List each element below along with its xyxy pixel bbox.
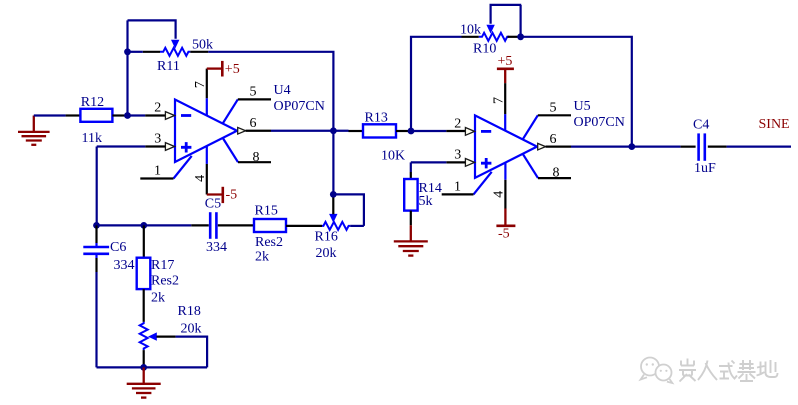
node R10 right junction (517, 33, 524, 40)
node B junction (408, 128, 415, 135)
svg-text:R11: R11 (157, 59, 180, 74)
wire bottom horizontal (97, 366, 208, 368)
U5 pin 2 arrow (465, 127, 474, 135)
svg-text:20k: 20k (181, 321, 202, 336)
ground GND1 left (18, 116, 50, 145)
U5 pin 6 output arrow (538, 143, 546, 150)
U4 pin 4 (206, 146, 208, 164)
wire R10 to U5 output node (521, 37, 632, 147)
wire C6 down to bottom (95, 272, 97, 367)
capacitor C5 (205, 197, 227, 255)
svg-text:2k: 2k (151, 290, 165, 305)
svg-text:11k: 11k (82, 131, 102, 146)
resistor R14 (404, 179, 442, 211)
U4 pin 6 output arrow (238, 127, 246, 134)
power +5 for U4 (207, 61, 240, 77)
svg-text:U5: U5 (574, 99, 591, 114)
wire R17 to R18 (143, 289, 145, 322)
svg-text:3: 3 (154, 132, 161, 147)
svg-text:8: 8 (553, 166, 560, 181)
wire bottom net horizontal (97, 224, 144, 226)
potentiometer R10 10k (460, 22, 521, 56)
svg-text:C6: C6 (110, 240, 126, 255)
svg-text:R16: R16 (315, 229, 338, 244)
U5 pin 1 (474, 172, 492, 195)
svg-text:1: 1 (154, 164, 161, 179)
svg-text:2: 2 (154, 101, 161, 116)
svg-text:R13: R13 (365, 111, 388, 126)
op-amp U5 (442, 83, 625, 208)
wire R15 to R16 (286, 225, 322, 227)
svg-text:6: 6 (250, 116, 257, 131)
minus mark U5 (481, 130, 491, 133)
svg-text:7: 7 (193, 81, 208, 88)
svg-text:Res2: Res2 (255, 235, 283, 250)
capacitor C6 (83, 225, 134, 272)
ground GND3 bottom (127, 367, 161, 397)
svg-text:20k: 20k (316, 246, 337, 261)
svg-text:7: 7 (491, 97, 506, 104)
U5 pin 3 arrow (465, 159, 474, 167)
plus mark U5 (481, 158, 491, 168)
wire R18 wiper loop (176, 337, 208, 368)
node R11 left junction (124, 48, 131, 55)
U5 pin 4 (504, 162, 506, 180)
svg-text:5: 5 (550, 100, 557, 115)
U4 pin 2 arrow (165, 112, 174, 120)
wire R17 top pin (143, 225, 145, 257)
U5 pin 8 (523, 154, 538, 178)
wire R11 wiper loop (128, 20, 176, 38)
wire U5 output to C4 (546, 146, 571, 148)
node U5 out junction (628, 143, 635, 150)
watermark logo (641, 358, 673, 384)
wire U4 pin3 to bottom net (145, 145, 165, 147)
op-amp U4 (140, 69, 325, 195)
svg-text:R15: R15 (255, 204, 278, 219)
svg-text:+5: +5 (225, 62, 240, 77)
svg-text:Res2: Res2 (151, 274, 179, 289)
resistor R12 (80, 95, 112, 146)
svg-text:C4: C4 (693, 117, 709, 132)
svg-text:U4: U4 (274, 83, 291, 98)
U5 pin 7 (504, 114, 506, 131)
wire U5 pin3 to R14 (446, 161, 465, 163)
svg-text:1uF: 1uF (694, 161, 716, 176)
wire R16 loop (333, 194, 364, 226)
potentiometer R11 50k (128, 37, 214, 74)
svg-text:5k: 5k (419, 194, 433, 209)
node U4 out junction (330, 127, 337, 134)
svg-text:OP07CN: OP07CN (574, 115, 625, 130)
wire R12 to node A (112, 114, 127, 116)
svg-text:8: 8 (253, 150, 260, 165)
svg-text:R12: R12 (81, 95, 104, 110)
svg-text:6: 6 (550, 132, 557, 147)
wire C5 to R15 (218, 224, 254, 226)
node R16 top junction (330, 191, 337, 198)
power -5 for U5 (496, 209, 515, 242)
U4 pin 1 (174, 156, 192, 179)
power +5 for U5 (497, 54, 514, 83)
potentiometer R18 20k (140, 304, 202, 368)
svg-text:SINE: SINE (759, 117, 790, 132)
svg-text:2k: 2k (255, 249, 269, 264)
svg-text:R17: R17 (151, 258, 174, 273)
U5 pin 5 (523, 115, 538, 139)
svg-text:334: 334 (206, 240, 227, 255)
resistor R13 (349, 111, 412, 164)
watermark text 嵌入式基地 (679, 359, 778, 382)
svg-text:2: 2 (454, 117, 461, 132)
potentiometer R16 20k (315, 198, 364, 261)
svg-text:-5: -5 (498, 226, 510, 241)
minus mark U4 (181, 114, 191, 117)
svg-text:4: 4 (193, 175, 208, 182)
svg-text:-5: -5 (226, 187, 238, 202)
wire U4 output (246, 130, 271, 132)
U4 pin 7 (206, 98, 208, 115)
svg-text:R10: R10 (473, 41, 496, 56)
svg-text:5: 5 (250, 84, 257, 99)
node bottom net left junction (93, 222, 100, 229)
wire R14 to ground (410, 211, 412, 226)
wire R10 wiper loop (491, 5, 522, 37)
resistor R17 (137, 258, 179, 306)
svg-text:+5: +5 (498, 54, 513, 69)
resistor R15 (254, 204, 286, 265)
svg-text:C5: C5 (205, 197, 221, 212)
svg-text:10K: 10K (381, 148, 405, 163)
wire node B to U5 pin2 (411, 130, 446, 132)
svg-text:10k: 10k (460, 22, 481, 37)
node R17 top junction (140, 222, 147, 229)
wire node A vertical up to R11 net (126, 20, 128, 115)
wire GND1 to R12 (34, 114, 66, 116)
ground GND2 under R14 (394, 225, 428, 255)
capacitor C4 (693, 117, 716, 176)
wire node B up to R10 (411, 37, 462, 131)
wire C4 to SINE (708, 146, 727, 148)
svg-text:3: 3 (454, 148, 461, 163)
wire output node down to R16 (332, 131, 334, 195)
svg-text:50k: 50k (192, 37, 213, 52)
node A junction (124, 112, 131, 119)
U4 pin 8 (223, 139, 238, 163)
svg-text:334: 334 (114, 258, 135, 273)
node bottom junction (140, 364, 147, 371)
svg-text:OP07CN: OP07CN (274, 99, 325, 114)
U4 pin 3 arrow (165, 143, 174, 151)
wire R11 to output node (208, 52, 333, 131)
svg-text:1: 1 (454, 180, 461, 195)
U4 pin 5 (223, 99, 238, 123)
plus mark U4 (181, 142, 191, 152)
svg-text:R18: R18 (178, 304, 201, 319)
svg-text:4: 4 (491, 191, 506, 198)
power -5 for U4 (207, 187, 237, 203)
